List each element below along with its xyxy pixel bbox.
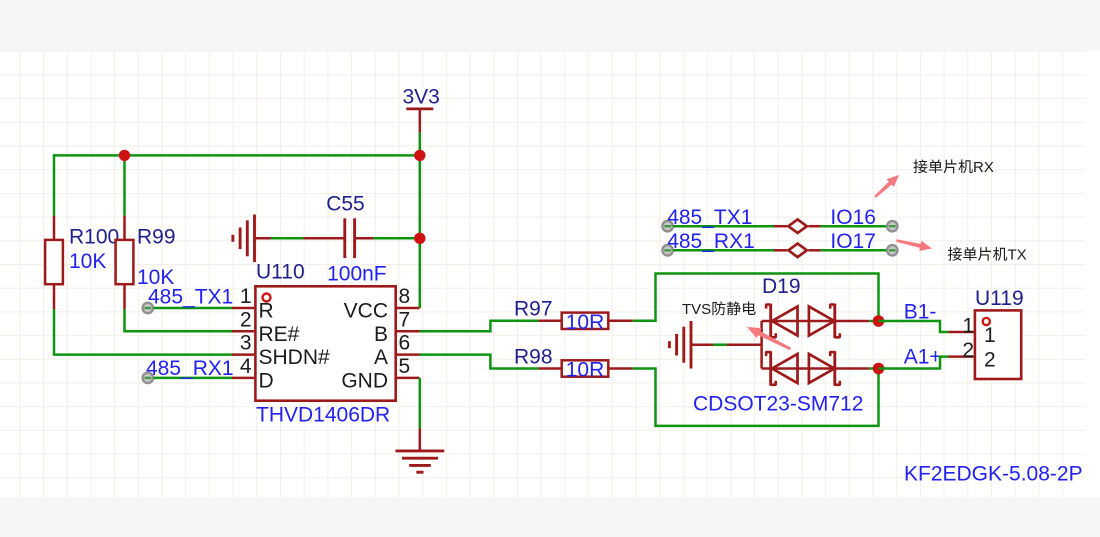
net tie diamond (TX1/IO16)	[774, 219, 820, 233]
wire 485_TX1 to net tie	[673, 225, 774, 228]
junction at R99 / top rail	[119, 150, 130, 161]
svg-text:D19: D19	[762, 275, 801, 298]
annotation text 接单片机RX	[913, 159, 993, 176]
svg-text:R: R	[259, 300, 274, 323]
svg-text:R98: R98	[514, 345, 553, 368]
wire VCC top rail	[54, 154, 420, 157]
svg-text:SHDN#: SHDN#	[259, 346, 331, 369]
svg-text:U110: U110	[256, 261, 305, 284]
svg-text:GND: GND	[341, 370, 388, 393]
pin marker 485_RX1	[143, 373, 153, 383]
pin marker IO17 right	[887, 245, 897, 255]
svg-text:485_TX1: 485_TX1	[667, 206, 752, 229]
svg-text:4: 4	[240, 355, 252, 378]
svg-text:U119: U119	[975, 287, 1024, 310]
svg-text:8: 8	[399, 285, 411, 308]
wire 485_RX1 to net tie	[673, 249, 774, 252]
svg-text:3: 3	[240, 332, 252, 355]
svg-text:RE#: RE#	[259, 323, 300, 346]
svg-text:A1+: A1+	[904, 345, 942, 368]
svg-text:6: 6	[399, 332, 411, 355]
svg-text:A: A	[374, 346, 388, 369]
svg-text:VCC: VCC	[344, 300, 388, 323]
svg-text:7: 7	[399, 308, 411, 331]
wire pin 5 to ground	[419, 378, 422, 429]
svg-text:THVD1406DR: THVD1406DR	[256, 403, 390, 426]
pin marker 485_TX1 left	[662, 221, 672, 231]
svg-text:485_RX1: 485_RX1	[146, 357, 234, 380]
svg-text:D: D	[259, 370, 274, 393]
wire VCC rail down to pin 8	[419, 155, 422, 308]
ground (D19)	[669, 321, 713, 369]
wire R99 top	[123, 155, 126, 215]
svg-text:3V3: 3V3	[403, 86, 440, 109]
svg-text:5: 5	[399, 355, 411, 378]
junction at 3V3 / top rail	[414, 150, 425, 161]
wire R98 to A1+ junction (bottom route)	[633, 369, 879, 426]
wire ground to D19 pin 3	[713, 343, 727, 346]
annotation arrow to 接单片机TX	[896, 239, 932, 251]
resistor R99	[116, 216, 176, 309]
annotation arrow to TVS防静电	[747, 327, 791, 350]
U110 pin 5 (GND)	[341, 355, 419, 393]
svg-text:C55: C55	[326, 193, 365, 216]
svg-text:10R: 10R	[566, 359, 605, 382]
U110 pin 3 (SHDN#)	[232, 332, 330, 370]
svg-text:1: 1	[962, 315, 974, 338]
U110 pin 8 (VCC)	[344, 285, 420, 323]
connector U119 body	[975, 310, 1021, 379]
pin marker 485_TX1	[143, 303, 153, 313]
wire 3V3 stem	[419, 133, 422, 157]
svg-text:1: 1	[240, 285, 252, 308]
U110 pin 6 (A)	[374, 332, 420, 370]
svg-text:KF2EDGK-5.08-2P: KF2EDGK-5.08-2P	[904, 462, 1083, 485]
junction at C55 / VCC rail	[414, 233, 425, 244]
U119 pin 1 indicator	[983, 318, 990, 325]
resistor R97	[514, 298, 633, 329]
svg-text:B: B	[374, 323, 388, 346]
U110 pin 1 (R)	[232, 285, 274, 323]
pin marker IO16 right	[887, 221, 897, 231]
U110 pin 7 (B)	[374, 308, 420, 346]
svg-text:TX: TX	[1008, 247, 1027, 264]
wire R97 to B1- junction (top route)	[633, 274, 879, 322]
annotation text TVS防静电	[682, 301, 756, 318]
junction B1-	[873, 315, 885, 327]
annotation text 接单片机TX	[948, 247, 1027, 264]
net tie diamond (RX1/IO17)	[774, 244, 820, 258]
svg-text:R99: R99	[137, 225, 176, 248]
svg-text:TVS: TVS	[682, 301, 711, 318]
wire C55 to VCC rail	[373, 237, 420, 240]
svg-text:485_RX1: 485_RX1	[667, 230, 755, 253]
svg-text:2: 2	[962, 339, 974, 362]
TVS diode array D19	[727, 275, 869, 386]
U119 pin 1	[948, 315, 995, 347]
svg-text:IO16: IO16	[830, 206, 876, 229]
U110 pin 1 indicator	[263, 294, 271, 302]
wire 485_TX1 to pin 1	[154, 307, 233, 310]
IC U110 body	[255, 286, 395, 400]
svg-text:2: 2	[240, 308, 252, 331]
svg-text:1: 1	[984, 324, 996, 347]
wire 485_RX1 to pin 4	[154, 377, 233, 380]
wire ground to C55	[271, 237, 304, 240]
wire R100 to pin 3	[54, 309, 233, 355]
U119 pin 2	[948, 339, 995, 371]
svg-text:10R: 10R	[566, 311, 605, 334]
svg-text:485_TX1: 485_TX1	[148, 286, 233, 309]
wire R99 to pin 2	[125, 309, 234, 331]
svg-text:R100: R100	[69, 225, 119, 248]
annotation arrow to 接单片机RX	[874, 175, 899, 198]
svg-text:CDSOT23-SM712: CDSOT23-SM712	[693, 392, 863, 415]
ground (C55 left)	[233, 215, 271, 263]
wire left rail down to R100	[53, 154, 56, 216]
resistor R100	[45, 216, 119, 309]
wire A1+ to U119 pin 2	[879, 357, 949, 369]
capacitor C55	[304, 193, 374, 259]
wire pin 7 (B) to R97	[420, 321, 539, 332]
U110 pin 4 (D)	[232, 355, 274, 393]
svg-text:IO17: IO17	[830, 230, 876, 253]
svg-text:10K: 10K	[69, 250, 106, 273]
wire D19 A lead to junction	[869, 367, 878, 370]
ground (below U110)	[396, 429, 445, 473]
pin marker 485_RX1 left	[662, 245, 672, 255]
svg-text:R97: R97	[514, 298, 553, 321]
junction A1+	[873, 363, 885, 375]
svg-text:100nF: 100nF	[327, 263, 387, 286]
wire net tie to IO17	[820, 249, 886, 252]
wire net tie to IO16	[820, 225, 886, 228]
svg-text:2: 2	[984, 348, 996, 371]
wire B1- to U119 pin 1	[879, 321, 949, 332]
resistor R98	[514, 345, 633, 376]
wire pin 6 (A) to R98	[420, 355, 539, 369]
svg-text:RX: RX	[973, 159, 994, 176]
U110 pin 2 (RE#)	[232, 308, 300, 346]
wire D19 B lead to junction	[869, 320, 878, 323]
power flag 3V3	[403, 86, 440, 133]
